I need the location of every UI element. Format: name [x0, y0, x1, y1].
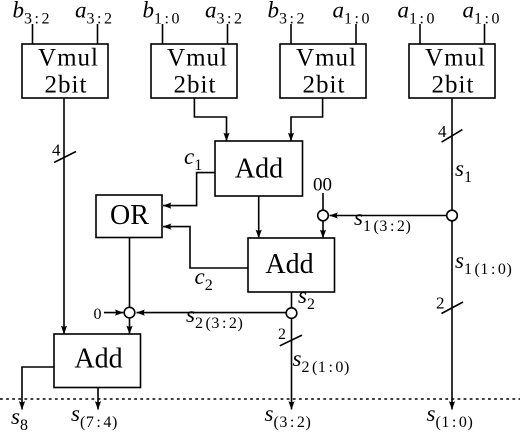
svg-text:Add: Add	[74, 344, 122, 375]
svg-text:s(1 : 0): s(1 : 0)	[427, 401, 474, 431]
svg-text:s1 (3 : 2): s1 (3 : 2)	[354, 205, 411, 235]
svg-text:Vmul: Vmul	[38, 45, 99, 72]
svg-text:s(3 : 2): s(3 : 2)	[265, 401, 312, 431]
svg-text:s1: s1	[455, 156, 473, 186]
svg-text:s2 (1 : 0): s2 (1 : 0)	[293, 346, 350, 376]
svg-text:2bit: 2bit	[174, 72, 217, 99]
svg-text:c1: c1	[184, 144, 203, 174]
svg-text:Add: Add	[235, 154, 283, 185]
svg-text:s8: s8	[11, 404, 29, 433]
svg-text:a3 : 2: a3 : 2	[205, 0, 243, 28]
svg-text:s1 (1 : 0): s1 (1 : 0)	[455, 248, 512, 278]
svg-text:s2: s2	[298, 283, 316, 313]
svg-text:b1 : 0: b1 : 0	[143, 0, 181, 28]
svg-text:OR: OR	[110, 200, 149, 231]
svg-text:2: 2	[436, 294, 445, 313]
svg-text:2: 2	[278, 326, 286, 343]
svg-text:Vmul: Vmul	[167, 45, 228, 72]
svg-text:a1 : 0: a1 : 0	[333, 0, 371, 28]
svg-text:a1 : 0: a1 : 0	[398, 0, 436, 28]
svg-text:00: 00	[313, 175, 332, 196]
svg-text:2bit: 2bit	[432, 72, 475, 99]
svg-text:a3 : 2: a3 : 2	[75, 0, 113, 28]
svg-text:0: 0	[94, 306, 102, 323]
svg-text:Add: Add	[265, 249, 313, 280]
svg-text:b3 : 2: b3 : 2	[13, 0, 51, 28]
svg-text:s(7 : 4): s(7 : 4)	[71, 401, 118, 431]
svg-text:4: 4	[52, 141, 61, 160]
svg-text:2bit: 2bit	[303, 72, 346, 99]
svg-text:Vmul: Vmul	[296, 45, 357, 72]
svg-text:2bit: 2bit	[45, 72, 88, 99]
svg-text:4: 4	[438, 122, 447, 141]
svg-text:a1 : 0: a1 : 0	[463, 0, 501, 28]
svg-text:Vmul: Vmul	[425, 45, 486, 72]
svg-text:s2 (3 : 2): s2 (3 : 2)	[186, 302, 243, 332]
svg-text:b3 : 2: b3 : 2	[268, 0, 306, 28]
